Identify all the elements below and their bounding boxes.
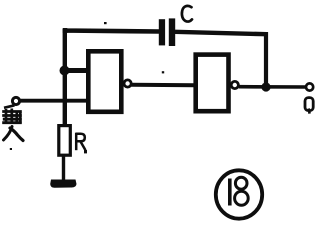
label input 输 — [2, 105, 22, 123]
digit 8 — [235, 177, 249, 205]
label Q — [305, 98, 313, 114]
speck marks — [10, 22, 164, 153]
digit 1 — [228, 179, 232, 206]
resistor R1 — [59, 126, 71, 156]
figure number circle 18 — [216, 170, 262, 218]
wire gate 2 output to terminal Q — [239, 85, 306, 89]
gate U2 output bubble — [231, 81, 238, 88]
wire R to ground — [62, 155, 65, 181]
node junction A (left) — [60, 66, 70, 76]
node junction B (right) — [261, 82, 270, 91]
input terminal — [12, 97, 19, 104]
label C — [182, 6, 192, 22]
wire input to gate 1 lower input — [19, 99, 90, 103]
label input 入 — [4, 127, 24, 141]
gate U1 output bubble — [124, 80, 131, 87]
label R — [76, 133, 86, 151]
wire left vertical (cap to R) — [63, 29, 67, 126]
capacitor C — [159, 18, 175, 46]
gate U1 — [88, 51, 121, 112]
wire junction A to gate 1 upper input — [64, 68, 90, 73]
wire gate 1 to gate 2 — [132, 83, 196, 88]
output terminal — [306, 83, 313, 90]
wire top feedback left segment — [63, 28, 159, 33]
ground — [50, 180, 76, 188]
gate U2 — [196, 55, 229, 112]
wire right vertical (top wire to output node) — [264, 32, 268, 87]
wire top feedback right segment — [175, 32, 267, 34]
